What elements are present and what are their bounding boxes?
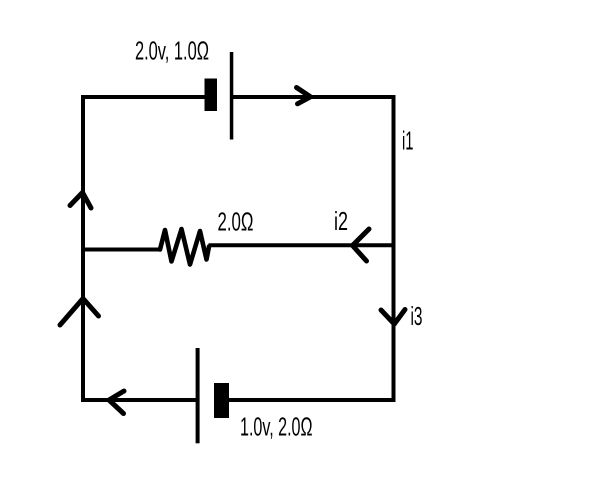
current arrow on left rail lower (up) bbox=[60, 299, 99, 326]
resistor R zigzag bbox=[160, 229, 209, 265]
current arrow i3 on right rail (down) bbox=[381, 310, 405, 325]
wire: bottom segment right of battery B2 bbox=[229, 398, 396, 402]
wire: top segment left of battery B1 bbox=[81, 95, 205, 99]
svg-text:i1: i1 bbox=[402, 126, 414, 156]
current arrow on top wire (right) bbox=[297, 88, 311, 104]
battery B2 positive plate (long) bbox=[196, 348, 200, 443]
wire: middle branch left of resistor R bbox=[81, 248, 161, 252]
current arrow on bottom wire (left) bbox=[109, 391, 124, 414]
svg-text:i3: i3 bbox=[411, 301, 423, 331]
battery B1 negative plate (thick) bbox=[205, 79, 218, 112]
svg-text:2.0v, 1.0Ω: 2.0v, 1.0Ω bbox=[135, 36, 209, 66]
current arrow on left rail upper (up) bbox=[70, 193, 91, 209]
svg-text:2.0Ω: 2.0Ω bbox=[218, 207, 254, 237]
battery B2 negative plate (thick) bbox=[214, 383, 229, 418]
svg-text:1.0v, 2.0Ω: 1.0v, 2.0Ω bbox=[240, 412, 313, 442]
wire: bottom segment left of battery B2 bbox=[81, 398, 196, 402]
wire: left rail bbox=[81, 95, 85, 402]
battery B1 positive plate (long) bbox=[230, 52, 234, 140]
svg-text:i2: i2 bbox=[334, 206, 348, 236]
wire: top segment right of battery B1 bbox=[233, 95, 396, 99]
wire: right rail bbox=[392, 95, 396, 402]
current arrow i2 on middle wire (left) bbox=[353, 229, 370, 261]
wire: middle branch right of resistor R bbox=[209, 243, 396, 247]
